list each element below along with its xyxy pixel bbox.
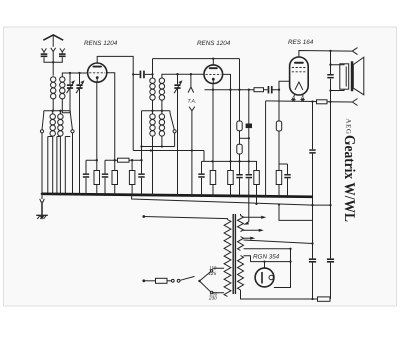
capacitor Cb (antenna right) [59, 53, 66, 55]
transformer S1 winding [238, 216, 244, 232]
capacitor C15 electrolytic [309, 258, 316, 260]
tube V2 RENS1204 [204, 65, 223, 84]
capacitor C12 [284, 174, 290, 176]
wire S3 top tap [244, 256, 251, 262]
capacitor C17 block [248, 90, 250, 124]
trimmer C1 [62, 73, 75, 113]
svg-text:230: 230 [208, 296, 217, 301]
wire coupling line y74.4 [133, 73, 152, 75]
resistor R2 [112, 171, 118, 185]
wire S1 tap lower [243, 229, 262, 231]
coil L5 IF primary [150, 78, 155, 100]
switch S2 right [70, 111, 72, 130]
coil L8 [159, 114, 164, 136]
wire filament line y101.8 [266, 101, 353, 102]
wire x133 down [132, 74, 134, 150]
star mark a [291, 98, 295, 102]
trimmer C7 [174, 74, 182, 196]
wire V3 anode top [299, 51, 352, 58]
transformer T1 primary [224, 220, 231, 297]
antenna A1 [42, 35, 65, 54]
wire verticals to ground bus [42, 133, 73, 195]
resistor R7 [254, 88, 264, 92]
wire primary bottom [52, 99, 54, 111]
connector TA jack upper [188, 74, 194, 92]
capacitor C4 [102, 173, 108, 175]
fuse F1 [156, 278, 168, 283]
svg-text:125: 125 [209, 271, 217, 276]
svg-text:RGN 354: RGN 354 [253, 254, 280, 261]
svg-text:RES 164: RES 164 [288, 39, 314, 46]
svg-text:T.A.: T.A. [188, 98, 197, 104]
wire y162.4 [231, 161, 257, 170]
capacitor C8 [202, 151, 231, 197]
connector TA jack lower [189, 107, 195, 111]
wire right column x330.5 [330, 51, 332, 299]
wire x265.6 [265, 101, 267, 198]
svg-text:RENS 1204: RENS 1204 [84, 40, 118, 47]
tube V1 RENS1204 [88, 63, 107, 82]
trimmer C2 [76, 73, 84, 195]
capacitor C14 [309, 149, 315, 151]
resistor R12 [239, 90, 241, 121]
wire IF secondary top to V2 grid [162, 74, 204, 78]
svg-text:AEG: AEG [345, 119, 352, 135]
wire V1 cathode down [96, 82, 98, 170]
connector P1 [352, 48, 357, 55]
wire RGN loop [251, 249, 291, 288]
speaker SP1 [331, 57, 364, 95]
wire y89.7 line [205, 89, 280, 91]
wire S2 taps [244, 237, 253, 239]
resistor R6 [228, 171, 234, 185]
wire V1 grid right [107, 73, 115, 160]
coil L7 [150, 114, 155, 136]
resistor R14 [276, 121, 281, 131]
ground symbol [36, 195, 48, 220]
wire antenna joins [44, 52, 62, 76]
resistor R13 [237, 144, 242, 154]
coil L2 antenna secondary [60, 77, 65, 99]
wire y146.5 [142, 146, 175, 148]
capacitor Ca (antenna left) [41, 53, 48, 55]
wire secondary top to grid line [62, 73, 87, 77]
resistor R1 [94, 171, 100, 185]
wire V2 cathode down [212, 84, 214, 171]
coil L6 IF secondary [159, 78, 164, 100]
tube V4 RGN354 [255, 268, 274, 287]
wire V2 grid right [223, 74, 231, 170]
wire IF band bracket [142, 110, 171, 112]
capacitor C13 speaker [327, 74, 333, 76]
wire lower IF connections [153, 136, 162, 196]
capacitor C16 electrolytic [327, 258, 334, 260]
wire band-coil bracket [44, 111, 71, 114]
wire V1 anode top [97, 56, 133, 74]
tube V3 RES164 [290, 57, 309, 95]
transformer S2 winding [238, 237, 244, 251]
wire V2 anode line y58.6 [153, 59, 240, 90]
wire heater line below bus [132, 195, 331, 206]
star mark b [300, 98, 304, 102]
coil L3 band left [50, 114, 55, 136]
transformer core [233, 214, 235, 294]
wire bracket y138.3 [240, 137, 249, 139]
svg-text:Geatrix W/WL: Geatrix W/WL [341, 135, 357, 222]
resistor R9 [276, 171, 282, 185]
switch S4 lever [180, 276, 194, 280]
wire V3 filament stubs [293, 95, 303, 97]
svg-text:110: 110 [209, 265, 217, 270]
wire S3 bottom to y299 [241, 290, 331, 299]
capacitor C10 [236, 174, 242, 176]
resistor R5 [210, 171, 216, 185]
wire V2 anode stub [212, 59, 214, 65]
switch S1 left [42, 111, 44, 130]
coil L4 band right [58, 114, 63, 136]
resistor R3 horizontal [115, 159, 142, 161]
transformer S3 winding HV [238, 256, 244, 291]
resistor R8 [254, 171, 259, 185]
wire IF bottoms [153, 100, 162, 114]
coil L1 antenna primary [51, 77, 56, 99]
wire S1 tap upper [243, 216, 264, 218]
capacitor C5 [138, 173, 144, 175]
switch S3 [170, 111, 174, 130]
wire cathode group stubs [86, 159, 115, 161]
capacitor C6 coupling [140, 71, 142, 79]
svg-text:RENS 1204: RENS 1204 [197, 40, 231, 47]
resistor R10 [317, 100, 328, 104]
wire TA pin to bus [191, 111, 193, 197]
ground bus [42, 194, 313, 197]
capacitor C3 [83, 173, 89, 175]
connector P2 [352, 99, 357, 106]
capacitor C9 [268, 86, 270, 93]
mains switch and fuse [142, 268, 224, 293]
wire x279 grid feed [279, 81, 290, 170]
resistor R4 [129, 171, 135, 185]
wire mains feed y216.5 [144, 217, 228, 220]
wire y150.5 [133, 150, 204, 152]
capacitor C11 [246, 174, 252, 176]
resistor R11 [318, 297, 331, 301]
wire x312.5 column [312, 102, 314, 299]
